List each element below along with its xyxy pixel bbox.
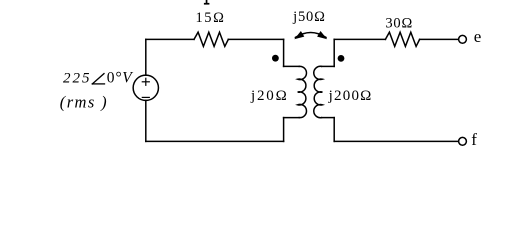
svg-text:e: e (474, 27, 482, 46)
wire secondary to R2 (334, 38, 385, 40)
label source value 225 angle 0 deg V (63, 70, 133, 87)
inductor L2 j200ohm (secondary coil) (314, 66, 323, 117)
resistor R2 30ohm zigzag (385, 32, 419, 46)
wire secondary top stub (321, 65, 334, 67)
svg-text:j20Ω: j20Ω (250, 88, 289, 104)
svg-text:(rms ): (rms ) (60, 92, 108, 111)
wire left vertical lower (source bottom) (145, 100, 147, 141)
svg-text:30Ω: 30Ω (385, 16, 413, 32)
mutual arrowhead left (294, 31, 304, 39)
wire primary bottom stub (284, 117, 300, 119)
mutual arrowhead right (317, 31, 327, 39)
inductor L1 j20ohm (primary coil) (298, 66, 307, 117)
plus sign (142, 78, 149, 85)
polarity dot primary (272, 55, 279, 62)
polarity dot secondary (338, 55, 345, 62)
svg-text:225: 225 (63, 71, 92, 87)
svg-text:f: f (471, 130, 477, 149)
wire bottom-right horizontal (334, 140, 458, 142)
voltage source VS circle (133, 75, 158, 100)
svg-text:j50Ω: j50Ω (292, 9, 326, 25)
wire secondary-right vertical lower (333, 118, 335, 142)
resistor R1 15ohm zigzag (194, 32, 228, 46)
svg-text:15Ω: 15Ω (195, 10, 225, 26)
minus sign (142, 96, 149, 98)
cropped glyph (bottom of character '1' above top edge) (204, 0, 210, 5)
wire R1 to primary top (228, 38, 283, 40)
svg-text:V: V (122, 70, 133, 87)
wire bottom-left horizontal (146, 140, 284, 142)
mutual coupling arrow M arc (295, 33, 326, 38)
svg-text:0°: 0° (107, 70, 123, 87)
wire left vertical upper (source top) (145, 39, 147, 75)
angle symbol (92, 74, 104, 84)
wire secondary bottom stub (321, 117, 334, 119)
wire primary top stub (284, 65, 300, 67)
wire secondary-right vertical upper (333, 39, 335, 66)
terminal f circle (459, 137, 467, 145)
svg-text:j200Ω: j200Ω (328, 88, 373, 104)
terminal e circle (459, 35, 467, 43)
wire primary-left vertical upper (283, 39, 285, 66)
wire R2 to terminal e (420, 38, 459, 40)
wire top-left horizontal (source to R1) (146, 38, 194, 40)
wire primary-left vertical lower (283, 118, 285, 142)
